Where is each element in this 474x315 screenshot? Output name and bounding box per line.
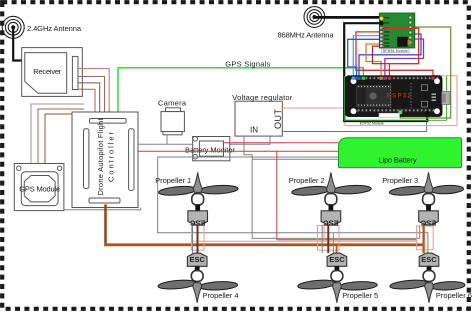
wire camera drop [166, 135, 168, 144]
net highlight box unit 2 [318, 226, 340, 251]
wire FC to orange power bus [104, 205, 107, 244]
motor 5 [331, 271, 343, 282]
svg-text:IN: IN [250, 126, 258, 135]
wire olive RFM95 to ESP32 bottom [400, 27, 450, 118]
ESC 4 [187, 253, 207, 266]
svg-text:ESP32: ESP32 [387, 93, 412, 99]
shaft wire 2 [329, 205, 334, 211]
svg-text:Camera: Camera [158, 98, 187, 107]
wire receiver-FC 1 [78, 69, 109, 119]
svg-text:Controller: Controller [107, 132, 116, 183]
wire GPS module-FC 2 [38, 109, 84, 164]
propeller 3 [382, 172, 463, 196]
svg-text:ESC: ESC [421, 255, 437, 264]
svg-text:Propeller 1: Propeller 1 [155, 176, 191, 185]
ESC 1 [188, 211, 208, 225]
motor 1 [192, 194, 204, 205]
wire receiver-FC 3 [78, 83, 100, 119]
wire GPS module right to FC bottom [64, 208, 141, 210]
svg-text:ESC: ESC [329, 255, 345, 264]
svg-text:OUT: OUT [273, 109, 283, 130]
wire red 2 [356, 32, 433, 78]
wire blue 1 [359, 34, 421, 78]
svg-text:ESP32 Module: ESP32 Module [360, 121, 384, 125]
propeller 6 [390, 279, 472, 303]
antenna 2.4GHz [2, 16, 82, 38]
svg-text:Propeller 4: Propeller 4 [203, 291, 239, 300]
green outline box around ESP32 [344, 76, 446, 120]
wire orange [366, 44, 404, 78]
ESC 2 [321, 211, 341, 225]
svg-text:Propeller 2: Propeller 2 [289, 176, 325, 185]
svg-text:2.4GHz Antenna: 2.4GHz Antenna [27, 24, 82, 33]
motor 4 [191, 271, 203, 282]
wire VR OUT to ESP32 (pink) [282, 76, 457, 126]
voltage regulator [232, 93, 293, 136]
wire antenna 2.4GHz to receiver [13, 28, 22, 61]
camera [158, 98, 187, 135]
propeller 5 [297, 279, 378, 303]
wire red bus [277, 239, 417, 241]
wire GPS signals (green) [118, 68, 363, 119]
wire VR OUT lower (grey) [282, 116, 426, 132]
wire VR IN down (grey staircase) [244, 136, 420, 238]
svg-text:ESC: ESC [420, 218, 436, 227]
net highlight box unit 1 [192, 226, 205, 251]
wire battery bottom rail (grey) [158, 157, 428, 253]
shaft wire 6 [427, 266, 432, 270]
flight controller U1 (Drone Autopilot) [72, 112, 138, 208]
RFM95 module [379, 13, 415, 53]
svg-text:Receiver: Receiver [33, 67, 62, 76]
svg-text:Drone Autopilot Flight: Drone Autopilot Flight [96, 118, 105, 196]
antenna 868MHz [278, 7, 335, 40]
ESC 5 [327, 253, 347, 266]
shaft wire 3 [426, 205, 431, 211]
wire GPS module-FC 1 [31, 104, 84, 164]
svg-text:ESC: ESC [189, 218, 205, 227]
wires ESC2 to ESC5 [321, 225, 323, 253]
wire red 1 (3.3V over PCB) [381, 28, 418, 77]
svg-text:868MHz Antenna: 868MHz Antenna [278, 30, 335, 39]
battery monitor [185, 137, 236, 161]
svg-text:Propeller 6: Propeller 6 [436, 291, 472, 300]
wire GPS module-FC 3 [45, 114, 84, 164]
svg-text:Voltage regulator: Voltage regulator [232, 93, 293, 102]
wire battery monitor to battery (red) [224, 142, 339, 144]
shaft wire 5 [335, 266, 340, 270]
shaft wire 4 [195, 266, 200, 270]
wire blue 2 [348, 39, 382, 77]
wire red tap down to red bus [276, 151, 278, 240]
wires ESC1 to ESC4 [192, 225, 194, 253]
svg-text:Battery Monitor: Battery Monitor [185, 146, 236, 155]
svg-text:GPS Module: GPS Module [19, 184, 60, 193]
wire receiver-FC 4 [78, 89, 95, 119]
svg-text:GPS Signals: GPS Signals [225, 60, 270, 69]
svg-text:Lipo Battery: Lipo Battery [379, 156, 417, 165]
wire VR to battery (grey) [252, 158, 338, 160]
net highlight box unit 3 [417, 226, 434, 250]
motor 2 [325, 194, 337, 205]
wire pink bus [192, 240, 417, 242]
wire cyan [353, 36, 381, 78]
propeller 1 [155, 172, 238, 196]
wires ESC3 to ESC6 [422, 225, 424, 253]
svg-text:Propeller 5: Propeller 5 [342, 291, 378, 300]
receiver [22, 48, 83, 97]
wire FC to voltage regulator IN [138, 136, 270, 144]
motor 3 [423, 194, 435, 205]
wire 868 antenna to RFM95 ANT [314, 16, 381, 19]
battery BT1 (Lipo) [339, 138, 462, 168]
shaft wire 1 [195, 205, 200, 211]
propeller 4 [158, 279, 239, 303]
propeller 2 [289, 172, 372, 196]
svg-text:RFM95 Module: RFM95 Module [383, 49, 408, 53]
svg-text:ESC: ESC [323, 218, 339, 227]
wire maroon loop [373, 46, 390, 64]
ESC 6 [419, 253, 439, 266]
svg-text:Propeller 3: Propeller 3 [382, 176, 418, 185]
svg-text:ESC: ESC [189, 255, 205, 264]
GPS module [14, 164, 64, 211]
wire purple [385, 39, 424, 78]
wire FC to battery (red) [138, 150, 339, 152]
motor 6 [423, 271, 435, 282]
wire receiver-FC 2 [78, 77, 105, 120]
wire RFM95 GND loop (black) [344, 23, 427, 121]
ESP32 module [346, 76, 451, 126]
ESC 3 [419, 211, 439, 225]
